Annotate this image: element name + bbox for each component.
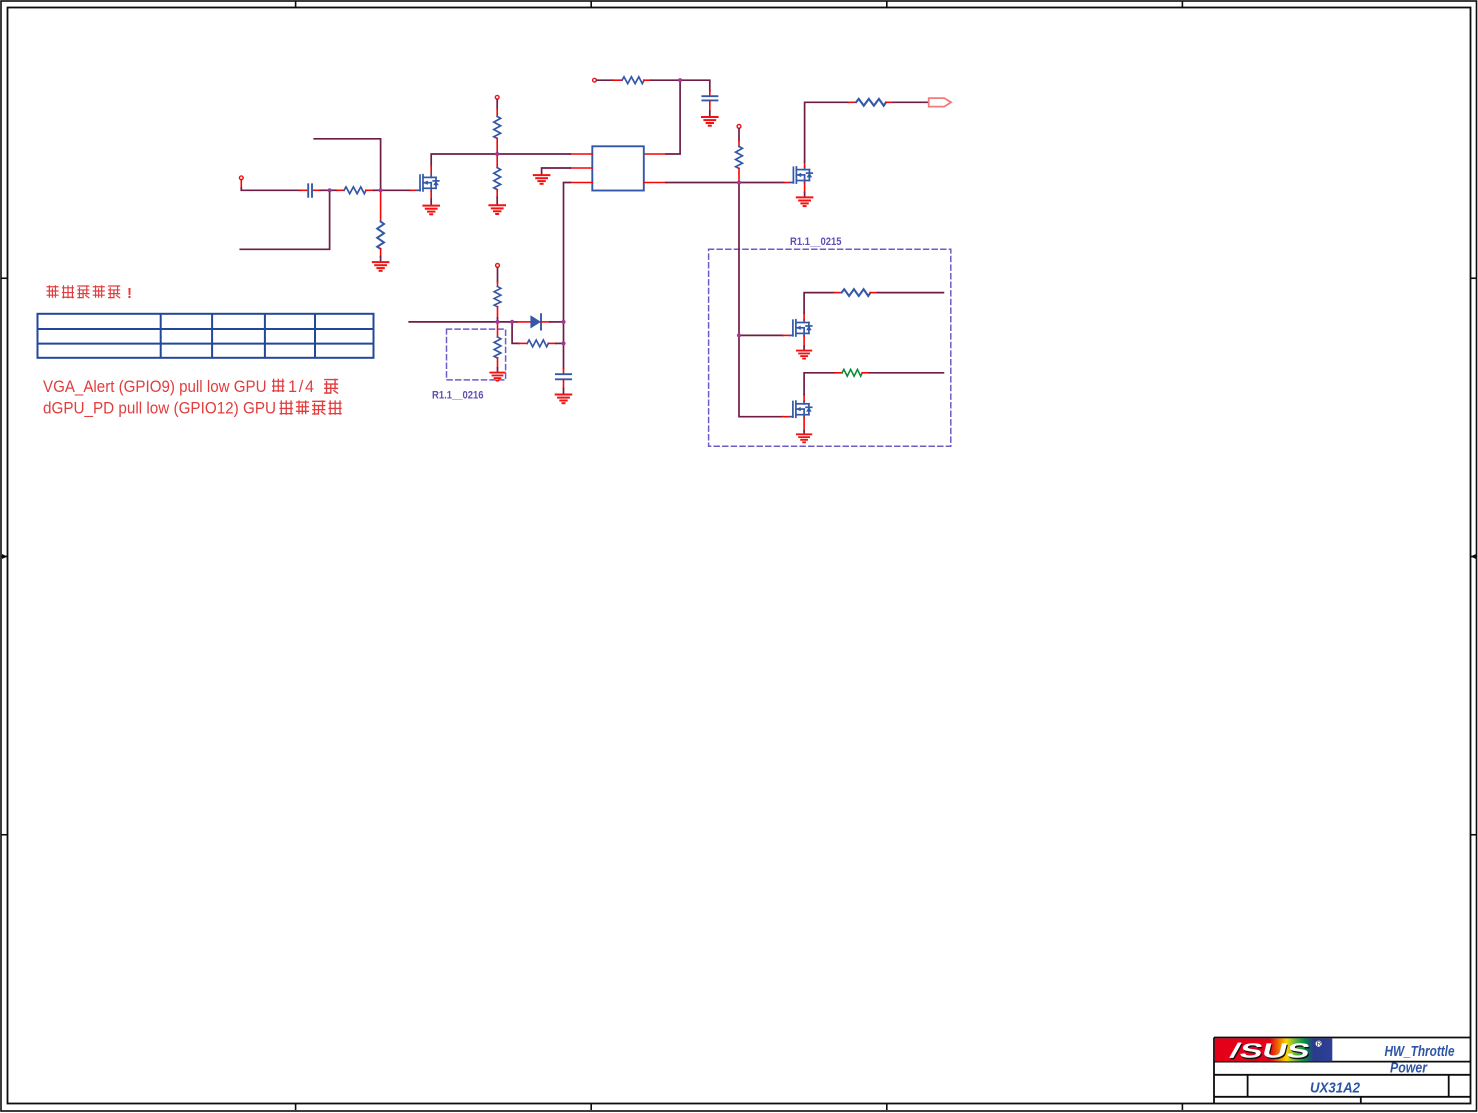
wire P3 down: [738, 129, 740, 141]
ground at U1 pin2: [534, 175, 550, 184]
note line 1: VGA_Alert (GPIO9) pull low GPU 降 1/4 頻: [43, 378, 338, 396]
pin stub U1 left pin 2: [570, 167, 592, 169]
capacitor C3: [556, 374, 571, 379]
svg-text:VGA_Alert (GPIO9) pull low GPU: VGA_Alert (GPIO9) pull low GPU: [43, 378, 267, 396]
wire U1 pin2 to ground: [542, 168, 571, 175]
svg-text:R1.1__0216: R1.1__0216: [432, 390, 484, 402]
pin stub Q4 drain: [804, 162, 806, 167]
node G junction: [510, 320, 514, 324]
pin stub R11 left: [834, 292, 842, 294]
wire Q1 source to ground: [430, 199, 432, 205]
wire Q5 drain to R11: [804, 293, 834, 313]
wire node J to Q5 gate: [739, 334, 783, 336]
resistor R9: [527, 340, 548, 347]
transistor Q4: [791, 167, 813, 183]
node F junction: [495, 320, 499, 324]
wire P5 down: [497, 268, 499, 282]
pin stub U1 right pin 2: [644, 182, 666, 184]
terminal P4 left input: [239, 176, 243, 180]
svg-text:dGPU_PD pull low (GPIO12) GPU: dGPU_PD pull low (GPIO12) GPU: [43, 399, 276, 417]
svg-text:/SUS: /SUS: [1228, 1040, 1313, 1063]
wire R9 to node I: [556, 342, 564, 344]
wire R10 to ground: [497, 368, 499, 372]
ground below R3: [489, 205, 505, 214]
TITLEBLOCK: [1214, 1038, 1471, 1104]
svg-text:Power: Power: [1390, 1061, 1428, 1077]
pin stub U1 left pin 1: [570, 153, 592, 155]
pin stub R3 top: [496, 154, 498, 168]
resistor R6: [344, 187, 366, 194]
node D junction: [328, 188, 332, 192]
IC U1: [592, 146, 644, 190]
ground below Q1: [423, 206, 439, 215]
pin stub Q5 drain: [803, 313, 805, 320]
pin stub U1 left pin 3: [570, 182, 592, 184]
pin stub Q1 source: [430, 191, 432, 199]
svg-text:R1.1__0215: R1.1__0215: [790, 236, 842, 248]
svg-text:R: R: [1317, 1041, 1322, 1048]
pin stub C2 bottom: [709, 100, 711, 111]
pin stub D1 anode: [517, 321, 530, 323]
wire node D to R6: [330, 189, 337, 191]
svg-text:HW_Throttle: HW_Throttle: [1385, 1044, 1455, 1060]
wire C3 to ground: [563, 389, 565, 395]
wire R11 right: [878, 292, 944, 294]
pin stub Q5 source: [803, 336, 805, 346]
wire node F to node G: [498, 321, 513, 323]
wire R3 to ground: [496, 197, 498, 205]
pin stub R12 left: [835, 372, 842, 374]
terminal P3 column C: [737, 125, 741, 129]
pin stub R2 bottom: [496, 138, 498, 154]
pin stub R4 top: [738, 140, 740, 146]
wire node E to Q1 gate: [381, 189, 411, 191]
pin stub U1 right pin 1: [644, 153, 666, 155]
pin stub R6 right: [366, 189, 374, 191]
node B junction: [495, 152, 499, 156]
pin stub R7 top: [380, 190, 382, 221]
wire row F left end: [409, 321, 497, 323]
pin stub Q5 gate: [783, 334, 790, 336]
pin stub R7 bottom: [380, 249, 382, 257]
resistor R2: [494, 116, 501, 138]
pin stub Q1 gate: [411, 189, 417, 191]
title block frame: [1214, 1038, 1471, 1104]
transistor Q5: [790, 320, 812, 336]
wire R6 to node E: [374, 189, 381, 191]
note line 2: dGPU_PD pull low (GPIO12) GPU 降最低頻: [43, 399, 342, 417]
wire R8 to node F: [497, 318, 499, 322]
pin stub R9 left: [519, 342, 527, 344]
wire node C down into box: [739, 183, 783, 417]
ground below R7: [373, 262, 389, 271]
wire Q4 drain to R5: [805, 102, 849, 162]
resistor R7: [377, 222, 384, 249]
NOTES: [38, 285, 374, 417]
pin stub R6 left: [337, 189, 344, 191]
wire C2 to ground: [709, 111, 711, 117]
ground below Q5: [797, 351, 811, 359]
wire node G to D1: [512, 321, 517, 323]
ground below C3: [556, 395, 572, 404]
wire Q5 source to ground: [803, 346, 805, 350]
pin stub R3 bottom: [496, 190, 498, 198]
ground below R10: [490, 373, 504, 381]
wire Q6 source to ground: [803, 431, 805, 434]
pin stub C3 top: [563, 369, 565, 375]
resistor R1: [622, 77, 644, 84]
transistor Q6: [790, 401, 812, 417]
wire C1 to node D: [321, 189, 330, 191]
wire P2 down: [496, 99, 498, 109]
terminal P5 mid column: [496, 264, 500, 268]
pin stub R1 right: [644, 79, 651, 81]
ground below Q6: [797, 434, 811, 442]
pin stub D1 cathode: [541, 321, 550, 323]
wire Q6 drain to R12: [804, 373, 835, 395]
pin stub C1 left: [301, 189, 307, 191]
pin stub Q6 source: [803, 417, 805, 431]
pin stub Q4 gate: [784, 182, 791, 184]
wire D1 to node H: [550, 321, 564, 323]
node A junction: [678, 78, 682, 82]
svg-text:1/4: 1/4: [288, 378, 314, 396]
svg-text:!: !: [127, 285, 132, 302]
note text: 請遠離熱源！ (keep away from heat): [47, 285, 132, 302]
node J junction: [737, 333, 741, 337]
wire P1 to R1: [597, 79, 613, 81]
resistor R10: [494, 337, 501, 358]
wire node H through I to C3: [563, 322, 565, 369]
pin stub P4 down: [240, 180, 242, 188]
svg-text:UX31A2: UX31A2: [1310, 1081, 1360, 1097]
wire node G down to R9: [512, 322, 519, 344]
resistor R4: [736, 146, 743, 168]
pin stub R2 top: [496, 109, 498, 116]
pin stub C3 bottom: [563, 379, 565, 388]
pin stub R12 right: [862, 372, 869, 374]
pin stub R1 left: [613, 79, 622, 81]
wire R12 right: [870, 372, 944, 374]
pin stub R5 right: [886, 101, 893, 103]
pin stub Q1 drain: [430, 166, 432, 175]
pin stub R8 top: [497, 282, 499, 287]
terminal P2 column B: [495, 95, 499, 99]
wire U1 pin1 to node B: [497, 153, 570, 155]
CIRCUIT: [239, 77, 951, 447]
capacitor C2: [702, 96, 717, 100]
pin stub R5 left: [849, 101, 856, 103]
pin stub R4 bottom: [738, 168, 740, 182]
output port arrow: [929, 98, 951, 107]
wire node A down to U1 pin: [666, 80, 680, 154]
wire R1 to node A: [651, 79, 680, 81]
pin stub R10 top: [497, 322, 499, 337]
wire U1 pin3 down long: [564, 183, 571, 322]
ASUS logo: [1215, 1038, 1333, 1064]
wire node A to C2 corner: [680, 80, 710, 91]
wire P4 to C1: [241, 188, 300, 190]
node C junction: [737, 180, 741, 184]
pin stub C1 right: [314, 189, 321, 191]
ground below Q4: [797, 197, 813, 206]
pin stub R11 right: [871, 292, 878, 294]
dashed box R1.1__0216: [447, 329, 506, 380]
pin stub R9 right: [548, 342, 556, 344]
wire Q4 source to ground: [804, 192, 806, 197]
pin stub Q6 drain: [803, 395, 805, 402]
pin stub Q4 source: [804, 183, 806, 192]
dashed box R1.1__0215: [709, 249, 951, 446]
wire R7 to ground: [380, 257, 382, 262]
resistor R12 green: [842, 369, 862, 376]
resistor R5: [856, 99, 886, 106]
wire node D feedback down-left: [240, 190, 329, 249]
pin stub Q6 gate: [783, 416, 790, 418]
wire node E up and left stub: [314, 139, 380, 191]
diode D1: [530, 314, 541, 329]
ground below C2: [702, 117, 718, 126]
terminal P1 top input: [593, 78, 597, 82]
transistor Q1: [417, 175, 439, 191]
revision table: [38, 314, 374, 358]
wire U1 pin 2 to Q4 gate: [666, 182, 784, 184]
resistor R8: [494, 287, 501, 307]
node E junction: [379, 188, 383, 192]
resistor R3: [494, 168, 501, 190]
wire R5 to output port: [893, 101, 929, 103]
wire node B to Q1 drain corner: [431, 154, 497, 166]
pin stub C2 top: [709, 91, 711, 96]
node I junction: [561, 341, 565, 345]
node H junction: [561, 320, 565, 324]
pin stub R10 bottom: [497, 358, 499, 368]
capacitor C1: [308, 184, 312, 197]
pin stub R8 bottom: [497, 307, 499, 318]
resistor R11: [842, 289, 871, 296]
